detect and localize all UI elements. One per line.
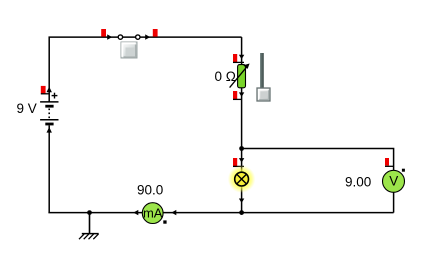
wire: right vertical (top corner down to bottom junction) xyxy=(241,37,243,213)
wire: voltmeter branch top xyxy=(242,149,394,213)
variable resistor VR1 xyxy=(230,64,250,88)
current arrow at battery bottom (up) xyxy=(47,127,52,133)
switch SW1 (closed) xyxy=(118,35,140,39)
switch pushbutton control xyxy=(121,42,137,58)
node: junction at lamp bottom xyxy=(239,210,244,215)
voltmeter handle dot xyxy=(402,169,405,172)
current marker at switch left xyxy=(101,29,106,37)
wire: bottom (left corner to voltmeter bottom corner) xyxy=(48,212,393,214)
wire: left vertical below battery xyxy=(48,126,50,213)
svg-text:mA: mA xyxy=(143,205,163,220)
current arrow before switch (right) xyxy=(107,34,112,39)
ammeter reading label 90.0 xyxy=(137,183,163,198)
ground xyxy=(79,213,99,240)
voltmeter V1 xyxy=(383,170,405,192)
wire: top (from battery top-left corner to top-right corner) xyxy=(49,37,241,101)
current arrow at ammeter right (left) xyxy=(171,210,176,215)
current marker at resistor bottom xyxy=(233,91,242,99)
current arrow at lamp top (down) xyxy=(239,158,244,163)
current marker at lamp xyxy=(233,158,244,166)
current arrow at resistor top (down) xyxy=(239,55,244,60)
battery B1 9V xyxy=(40,93,58,124)
node: junction at lamp top branch xyxy=(239,146,244,151)
lamp L1 xyxy=(228,165,256,193)
current arrow at resistor bottom (down) xyxy=(239,92,244,97)
current arrow at ammeter left (left) xyxy=(133,210,138,215)
current arrow after switch (right) xyxy=(145,34,150,39)
svg-text:0 Ω: 0 Ω xyxy=(215,69,236,84)
ammeter handle dot xyxy=(163,220,166,223)
current marker at battery xyxy=(41,86,49,94)
svg-text:9.00: 9.00 xyxy=(345,175,371,190)
current marker at switch right xyxy=(153,29,158,37)
battery value label 9 V xyxy=(17,101,37,116)
current marker at resistor top xyxy=(233,54,244,62)
node: junction at ground xyxy=(87,210,92,215)
svg-text:90.0: 90.0 xyxy=(137,183,163,198)
resistor value label 0 ohm xyxy=(215,69,236,84)
voltmeter reading label 9.00 xyxy=(345,175,371,190)
current arrow at lamp bottom (down) xyxy=(239,199,244,204)
current marker at voltmeter xyxy=(385,158,394,166)
ammeter A1 xyxy=(142,203,163,224)
svg-text:9 V: 9 V xyxy=(17,101,37,116)
slider control for variable resistor xyxy=(257,53,270,101)
svg-text:V: V xyxy=(389,173,398,188)
current arrow at battery top (up) xyxy=(47,87,52,93)
